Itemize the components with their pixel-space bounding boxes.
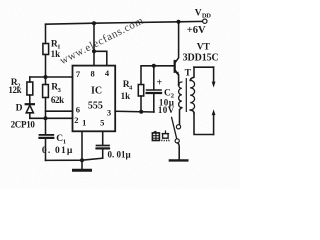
- wire pin 6: [46, 110, 73, 112]
- switch lever: [172, 117, 177, 138]
- wire pin 5 drop: [102, 131, 104, 144]
- node junction pin8/pin4: [92, 49, 96, 53]
- switch bottom terminal: [175, 139, 179, 143]
- capacitor C1: [40, 134, 54, 136]
- wire left drop to R1: [45, 24, 47, 43]
- label VDD: [187, 9, 211, 37]
- wire discharge loop bottom: [194, 113, 214, 135]
- wire emitter: [175, 70, 179, 75]
- ground right: [170, 159, 187, 161]
- label D 2CP10: [11, 103, 36, 129]
- node rail junction collector: [177, 20, 181, 24]
- electrode arrow up: [212, 109, 216, 115]
- switch contact top terminal: [176, 125, 180, 129]
- transformer T primary winding: [179, 82, 182, 108]
- diode D 2CP10: [26, 103, 34, 105]
- wire top VDD rail: [46, 21, 203, 24]
- wire R4 bottom lead: [140, 96, 142, 112]
- wire pin 7: [30, 76, 73, 78]
- node junction R4 bottom: [139, 110, 143, 114]
- label C1: [42, 134, 74, 156]
- transformer core: [185, 79, 187, 112]
- ground left: [74, 169, 91, 172]
- electrode arrow down: [213, 67, 215, 82]
- capacitor C3 0.01u: [97, 145, 110, 147]
- op-amp U1 IC 555 box: [73, 66, 116, 132]
- label R2: [8, 78, 21, 95]
- label switch chudian: [152, 130, 169, 141]
- wire emitter to winding: [178, 84, 180, 86]
- label R3: [51, 82, 64, 105]
- wire primary bottom to switch: [180, 108, 182, 125]
- label C2: [157, 78, 175, 115]
- node rail junction pin8: [92, 21, 96, 25]
- scan grain overlay: [0, 0, 240, 189]
- wire R2 to diode: [29, 95, 31, 104]
- label IC 555 pins: [74, 68, 111, 128]
- wire pin 4 branch: [94, 51, 107, 65]
- node junction C2 top: [152, 64, 156, 68]
- wire pin 1 drop: [81, 131, 83, 160]
- wire R2 top lead: [29, 77, 31, 82]
- resistor R3: [43, 85, 49, 98]
- label R1: [51, 39, 61, 59]
- resistor R4: [138, 85, 143, 97]
- wire R3 top lead: [45, 77, 47, 85]
- transistor Q1 VT 3DD15C: [174, 61, 176, 72]
- transformer T secondary winding: [190, 80, 194, 110]
- wire R3 bottom down to C1: [45, 98, 47, 135]
- wire diode to pin2 wire: [29, 113, 31, 119]
- wire bottom rail: [46, 158, 103, 160]
- wire C2 bottom lead: [153, 94, 155, 112]
- capacitor C2: [147, 89, 161, 91]
- wire C3 bottom to rail: [102, 149, 104, 158]
- wire C2 top lead: [153, 66, 155, 90]
- wire pin 8 riser: [93, 23, 95, 65]
- wire R4 top to base line: [141, 66, 175, 85]
- node junction pin2/C1: [44, 116, 48, 120]
- wire pin 2: [30, 117, 73, 119]
- resistor R1: [43, 44, 49, 55]
- terminal VDD: [203, 19, 207, 23]
- wire discharge loop top: [194, 66, 214, 68]
- resistor R2: [27, 82, 33, 95]
- node junction R1/R2/R3/pin7: [44, 75, 48, 79]
- wire switch to ground: [178, 143, 179, 159]
- label VT 3DD15C: [183, 43, 219, 64]
- label R4: [121, 80, 133, 101]
- wire C1 bottom to bottom rail: [45, 139, 47, 160]
- wire secondary top to loop: [190, 67, 194, 80]
- wire to ground: [81, 160, 83, 168]
- wire pin 3: [115, 110, 154, 113]
- node junction pin1/ground: [80, 158, 84, 162]
- wire secondary bottom to loop: [190, 110, 194, 113]
- wire R1 bottom to junction: [45, 55, 47, 78]
